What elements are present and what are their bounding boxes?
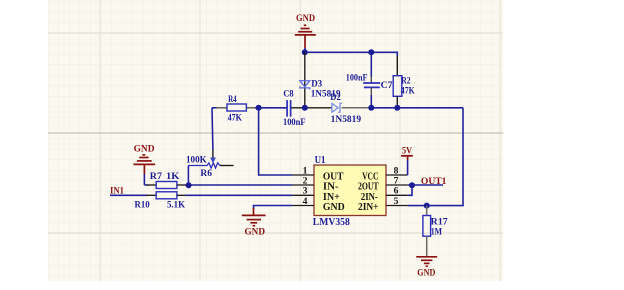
wire D2 cathode to node E bbox=[342, 107, 372, 109]
wire from top GND stem to node A bbox=[304, 48, 306, 52]
ground GND (top, above D3) bbox=[295, 13, 316, 48]
wire corner at R4 left bbox=[212, 107, 217, 109]
node E (C7 bottom junction) bbox=[368, 105, 374, 111]
node B (C7 top junction) bbox=[368, 49, 374, 55]
svg-text:1K: 1K bbox=[166, 172, 180, 182]
node A (top GND junction) bbox=[302, 49, 308, 55]
node H (pin 7 junction) bbox=[409, 182, 415, 188]
svg-text:LMV358: LMV358 bbox=[313, 217, 350, 228]
node J (pin 5 / R17 junction) bbox=[424, 203, 430, 209]
wire node D down to U1 pin 1 bbox=[259, 108, 293, 175]
svg-text:5V: 5V bbox=[402, 145, 412, 156]
resistor R4 bbox=[216, 104, 246, 111]
svg-text:1N5819: 1N5819 bbox=[331, 115, 362, 125]
diode D3 bbox=[300, 81, 310, 90]
svg-text:47K: 47K bbox=[401, 86, 416, 96]
svg-text:GND: GND bbox=[134, 143, 155, 154]
pin 7 (2OUT) bbox=[386, 175, 408, 186]
node D (R4 right junction) bbox=[256, 105, 262, 111]
node G (R7-R6 junction) bbox=[186, 182, 192, 188]
pin 5 (2IN+) bbox=[386, 196, 408, 207]
resistor R7 bbox=[147, 182, 187, 189]
svg-text:GND: GND bbox=[417, 267, 435, 278]
wire node E to right corner bbox=[371, 107, 463, 109]
wire R4 left to R6 wiper bbox=[211, 108, 214, 150]
svg-text:D2: D2 bbox=[330, 93, 341, 103]
svg-text:R4: R4 bbox=[228, 95, 237, 105]
svg-text:47K: 47K bbox=[228, 113, 243, 123]
svg-text:5.1K: 5.1K bbox=[167, 200, 186, 210]
svg-text:C8: C8 bbox=[283, 90, 294, 100]
wire vertical through D3 (node A to node C) bbox=[304, 52, 306, 108]
resistor R2 bbox=[393, 52, 402, 108]
wire node G to U1 pin 2 bbox=[186, 184, 293, 186]
svg-text:D3: D3 bbox=[311, 80, 322, 90]
wire C8 right plate to D2 anode bbox=[291, 107, 332, 109]
svg-text:4: 4 bbox=[303, 196, 308, 207]
pin 3 (IN+) bbox=[292, 186, 314, 197]
svg-text:R10: R10 bbox=[135, 200, 150, 210]
pin 1 (OUT) bbox=[292, 165, 314, 176]
pin 6 (2IN-) bbox=[386, 186, 408, 197]
capacitor C7 bbox=[363, 52, 380, 108]
diode D2 bbox=[332, 103, 342, 112]
wire R10 right lead to U1 pin 3 bbox=[186, 194, 293, 196]
svg-text:OUT1: OUT1 bbox=[421, 176, 447, 187]
svg-text:C7: C7 bbox=[381, 81, 393, 91]
wire U1 pin 4 to mid GND bbox=[254, 206, 293, 210]
svg-text:GND: GND bbox=[296, 13, 315, 24]
potentiometer R6 bbox=[188, 150, 233, 168]
svg-text:5: 5 bbox=[394, 196, 399, 207]
ground GND (bottom, below R17) bbox=[416, 257, 437, 279]
svg-text:2IN+: 2IN+ bbox=[358, 202, 379, 213]
wire node H to U1 pin 6 feedback bbox=[408, 185, 412, 195]
capacitor C8 bbox=[287, 100, 291, 117]
ground GND (mid, below U1) bbox=[242, 208, 266, 237]
resistor R10 bbox=[146, 192, 187, 199]
wire R4 right lead to node D bbox=[246, 107, 287, 109]
resistor R17 bbox=[423, 206, 431, 257]
op-amp U1 body bbox=[314, 165, 386, 216]
svg-text:GND: GND bbox=[323, 202, 345, 213]
power 5V supply symbol bbox=[401, 145, 413, 175]
svg-text:R17: R17 bbox=[431, 217, 448, 227]
svg-text:100nF: 100nF bbox=[346, 74, 368, 84]
wire left GND to R7 left lead bbox=[144, 174, 148, 185]
svg-text:R7: R7 bbox=[150, 172, 163, 182]
wire top horizontal (node A to R2 top) bbox=[305, 51, 398, 53]
svg-text:GND: GND bbox=[245, 226, 266, 237]
wire right feedback run (node F to pin 5 row) bbox=[408, 108, 463, 206]
wire IN1 to R10 left lead bbox=[110, 194, 147, 196]
svg-text:100K: 100K bbox=[186, 156, 207, 166]
pin 8 (VCC) bbox=[386, 165, 408, 176]
wire R6 left terminal down to node G bbox=[187, 166, 189, 186]
svg-text:100nF: 100nF bbox=[283, 118, 306, 128]
svg-text:1M: 1M bbox=[431, 228, 442, 238]
node F (R2 bottom junction) bbox=[394, 105, 400, 111]
svg-text:R2: R2 bbox=[401, 77, 411, 87]
svg-text:R6: R6 bbox=[200, 169, 212, 179]
pin 2 (IN-) bbox=[292, 175, 314, 186]
wire U1 pin 7 to OUT1 bbox=[408, 184, 443, 186]
node C (D3 bottom junction) bbox=[302, 105, 308, 111]
svg-text:U1: U1 bbox=[315, 155, 326, 166]
ground GND (left, at R7) bbox=[133, 143, 155, 174]
pin 4 (GND) bbox=[292, 196, 314, 207]
